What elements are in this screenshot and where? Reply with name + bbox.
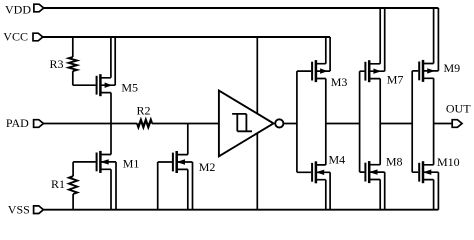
svg-text:PAD: PAD (6, 116, 29, 130)
svg-text:M7: M7 (387, 72, 404, 86)
svg-text:M4: M4 (329, 152, 346, 166)
svg-text:M5: M5 (121, 80, 138, 94)
svg-text:R1: R1 (51, 177, 65, 191)
svg-text:M1: M1 (123, 157, 140, 171)
svg-text:M9: M9 (444, 61, 461, 75)
svg-text:VDD: VDD (5, 2, 31, 16)
svg-text:M2: M2 (199, 160, 216, 174)
svg-text:R2: R2 (137, 104, 151, 118)
svg-text:M8: M8 (386, 155, 403, 169)
svg-text:M3: M3 (331, 75, 348, 89)
svg-text:M10: M10 (437, 155, 460, 169)
svg-text:OUT: OUT (446, 102, 471, 116)
svg-text:R3: R3 (50, 57, 64, 71)
svg-text:VCC: VCC (3, 30, 28, 44)
svg-text:VSS: VSS (8, 203, 30, 217)
